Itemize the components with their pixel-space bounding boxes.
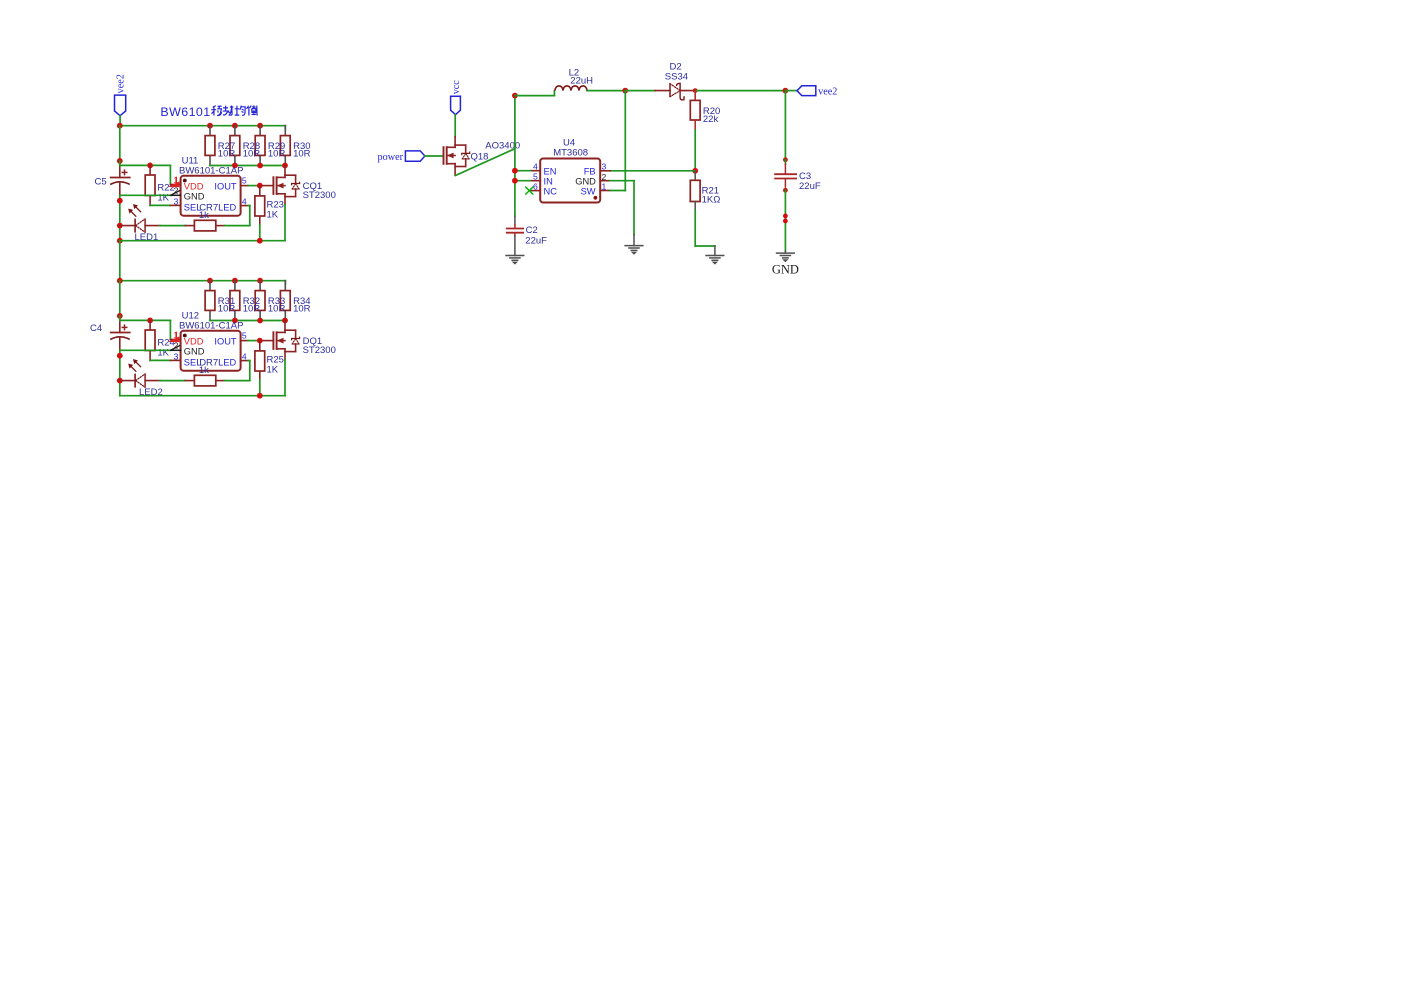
wire GND pin to ground [610,181,634,246]
wire IN [515,180,530,182]
svg-text:3: 3 [602,162,607,172]
wire input node vertical [514,96,516,217]
svg-text:22k: 22k [703,114,719,125]
wire FB [610,170,695,172]
svg-text:22uF: 22uF [525,235,547,246]
wire VDD branch [120,316,171,340]
net flag power [378,151,425,163]
svg-text:1k: 1k [199,210,209,221]
svg-text:1KΩ: 1KΩ [702,194,721,205]
resistor DR7 1k [160,358,225,386]
pin-end dot [783,219,788,224]
transistor Q18 AO3400 [444,137,521,176]
wire vcc to drain [454,115,456,137]
svg-text:LED: LED [218,203,236,213]
svg-text:SW: SW [581,187,596,197]
svg-text:3: 3 [174,197,179,207]
svg-text:10R: 10R [293,148,311,159]
wire EN [515,170,530,172]
net flag vcc [451,80,462,115]
wire resistor bottom rail [210,320,285,322]
svg-text:1k: 1k [199,365,209,376]
junction [117,123,123,129]
junction [257,123,263,129]
wire LED pin4 [225,206,250,226]
svg-text:BW6101-C1AP: BW6101-C1AP [179,166,243,177]
wire output to C3 [784,91,786,160]
junction [117,278,123,284]
svg-text:2: 2 [174,341,179,351]
svg-text:VDD: VDD [184,182,204,192]
junction [117,238,123,244]
junction [257,278,263,284]
svg-text:10R: 10R [243,148,261,159]
no-connect NC [526,187,533,194]
wire cell+ vertical [119,281,121,319]
transistor DQ1 ST2300 [273,321,335,360]
junction drain node [282,318,288,324]
wire cell- vertical [119,195,121,241]
wire VDD branch [120,161,171,185]
junction FB node [692,168,698,174]
IC U4 MT3608 [530,138,610,203]
wire SW node to D2 [625,90,655,92]
svg-text:MT3608: MT3608 [553,148,588,159]
wire node to L2 [515,91,555,96]
wire SEL [150,204,170,206]
junction [117,378,123,384]
wire C3 to ground [784,190,786,251]
wire IOUT to gate [248,185,273,187]
resistor R28 10R [230,126,260,166]
wire L2 to SW node [587,90,625,92]
svg-text:IOUT: IOUT [214,182,237,192]
resistor R22 1K [145,165,175,205]
svg-text:C5: C5 [95,176,107,187]
junction [257,163,263,169]
wire GND pin2 [120,349,170,351]
resistor R20 22k [690,91,720,130]
capacitor C3 22uF [774,160,821,192]
wire R20 to FB node [694,130,696,171]
wire source diagonal [455,149,515,176]
resistor R32 10R [230,281,260,321]
resistor R29 10R [255,126,285,166]
junction [117,223,123,229]
svg-text:1: 1 [602,182,607,192]
svg-text:4: 4 [242,197,247,207]
junction [232,278,238,284]
capacitor C2 22uF [506,216,547,255]
wire source to rail [284,205,286,241]
junction [147,318,153,324]
capacitor C4 [90,318,131,350]
svg-text:1K: 1K [267,365,279,376]
wire cell+ vertical [119,126,121,164]
svg-text:VDD: VDD [184,337,204,347]
ground (U4) [624,246,643,254]
resistor R33 10R [255,281,285,321]
wire between blocks [119,241,121,281]
resistor CR7 1k [160,203,225,231]
ground (C2) [505,256,524,264]
svg-text:IN: IN [544,177,553,187]
wire R21 to ground [695,211,715,256]
svg-text:GND: GND [575,177,596,187]
ground (R21) [705,256,724,264]
capacitor C5 [95,163,131,195]
wire top rail vee2 [120,126,285,130]
resistor R24 1K [145,320,175,360]
junction [207,123,213,129]
svg-text:SS34: SS34 [665,71,688,82]
junction gate node [257,338,263,344]
LED LED1 [120,205,160,243]
svg-text:GND: GND [184,347,205,357]
svg-text:1: 1 [173,175,178,185]
transistor CQ1 ST2300 [273,166,335,205]
svg-text:1K: 1K [157,193,169,204]
diode D2 SS34 [655,61,695,99]
svg-text:2: 2 [174,186,179,196]
junction output node [783,88,789,94]
wire to vee2 flag [785,90,797,92]
junction [232,318,238,324]
wire top rail cell2 [120,281,285,285]
svg-text:6: 6 [533,181,538,191]
wire ground stub [784,251,786,253]
junction [117,158,123,164]
wire vee2 to rail [119,116,121,126]
resistor R27 10R [205,126,235,166]
title BW6101 passive balancing [160,105,257,119]
pin-end dot [783,214,788,219]
wire SEL [150,359,170,361]
svg-text:NC: NC [544,187,558,197]
junction EN [512,168,518,174]
junction [117,353,123,359]
net flag vee2 (right) [797,86,837,98]
junction [257,318,263,324]
svg-text:10R: 10R [293,303,311,314]
svg-text:10R: 10R [243,303,261,314]
svg-text:5: 5 [242,176,247,186]
junction [117,198,123,204]
junction [232,123,238,129]
IC U11 BW6101-C1AP [169,155,248,215]
wire cell- vertical [119,350,121,396]
wire bottom rail [120,395,285,397]
wire power to gate [425,155,444,157]
resistor R25 1K [255,341,284,396]
junction input node [512,93,518,99]
svg-text:GND: GND [772,262,799,276]
wire GND pin2 [120,194,170,196]
svg-text:2: 2 [602,172,607,182]
svg-text:vee2: vee2 [115,74,126,93]
svg-text:22uH: 22uH [570,76,593,87]
svg-text:C4: C4 [90,323,102,334]
IC U12 BW6101-C1AP [169,310,248,370]
junction [117,313,123,319]
resistor R21 1KOhm [690,171,720,211]
resistor R30 10R [280,126,310,166]
svg-text:5: 5 [533,172,538,182]
net flag vee2 (top) [115,74,127,116]
svg-text:1: 1 [173,330,178,340]
svg-text:10R: 10R [268,303,286,314]
wire resistor bottom rail [210,165,285,167]
svg-text:ST2300: ST2300 [303,345,336,356]
svg-text:10R: 10R [268,148,286,159]
junction SW node [622,88,628,94]
resistor R34 10R [280,281,310,321]
svg-text:GND: GND [184,192,205,202]
resistor R23 1K [255,186,284,241]
junction diode out [693,88,698,93]
svg-text:BW6101: BW6101 [160,105,210,119]
svg-text:FB: FB [584,167,596,177]
LED LED2 [120,360,163,398]
junction [232,163,238,169]
resistor R31 10R [205,281,235,321]
pin-end dot [783,188,788,193]
svg-text:3: 3 [174,352,179,362]
svg-text:vee2: vee2 [818,87,837,98]
junction gate node [257,183,263,189]
wire D2 to vee2 [695,90,785,92]
ground GND [772,253,799,276]
svg-text:vcc: vcc [451,80,462,95]
junction [207,278,213,284]
inductor L2 22uH [555,68,593,91]
wire LED pin4 [225,361,250,381]
junction IN [512,178,518,184]
svg-text:4: 4 [533,162,538,172]
svg-text:ST2300: ST2300 [303,190,336,201]
svg-text:10R: 10R [218,303,236,314]
junction drain node [282,163,288,169]
svg-text:4: 4 [242,352,247,362]
wire source to rail [284,360,286,396]
svg-text:22uF: 22uF [799,181,821,192]
wire IOUT to gate [248,340,273,342]
svg-text:5: 5 [242,331,247,341]
svg-text:power: power [378,152,404,163]
wire SW net vertical [610,91,625,191]
junction [147,163,153,169]
svg-text:IOUT: IOUT [214,337,237,347]
pin-end dot [783,157,788,162]
svg-text:1K: 1K [267,210,279,221]
svg-text:LED: LED [218,358,236,368]
svg-text:1K: 1K [157,348,169,359]
svg-text:10R: 10R [218,148,236,159]
wire bottom rail [120,240,285,242]
junction [257,393,263,399]
svg-text:BW6101-C1AP: BW6101-C1AP [179,321,243,332]
junction [257,238,263,244]
svg-text:EN: EN [544,167,557,177]
